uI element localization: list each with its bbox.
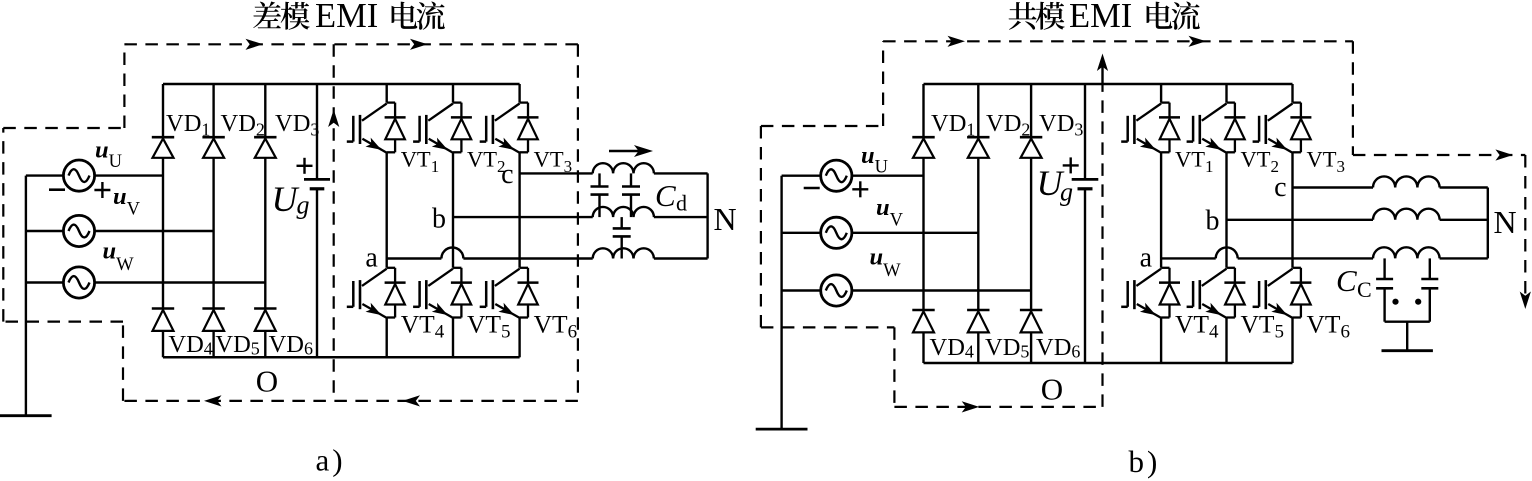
wire phase c rail (right) — [1293, 186, 1374, 188]
wire rectifier leg 2 middle (right) — [977, 158, 979, 310]
wire source uW to rectifier (right) — [852, 289, 1032, 291]
wire source uW to common (right) — [782, 289, 821, 291]
svg-text:b: b — [432, 204, 446, 235]
arrow right on top dashed 2 (right) — [1189, 36, 1207, 47]
wire rectifier leg 3 middle (right) — [1030, 158, 1032, 310]
AC source uW (left) — [63, 267, 94, 298]
wire phase c to star point (right) — [1440, 186, 1488, 188]
wire source uW to rectifier (left) — [94, 281, 265, 283]
wire inverter leg c bottom (left) — [518, 318, 520, 358]
ground of CC — [1382, 349, 1433, 352]
svg-text:uV: uV — [876, 194, 904, 231]
transistor VT3 with freewheel diode — [480, 103, 539, 153]
svg-text:VD1: VD1 — [166, 110, 210, 140]
wire rectifier leg 1 middle (left) — [162, 158, 164, 309]
inductor phase b winding (right) — [1373, 209, 1440, 220]
svg-text:VT4: VT4 — [401, 309, 445, 342]
diode VD6 — [254, 309, 276, 331]
capacitor Cd 2 — [622, 173, 640, 217]
wire phase b to star point — [654, 216, 708, 218]
arrow up through DC bus (right) — [1097, 54, 1108, 85]
minus sign at source uU (left) — [49, 188, 65, 191]
svg-text:uW: uW — [870, 244, 902, 282]
wire DC-link lower (left) — [316, 189, 318, 357]
plus sign at source uU (left) — [94, 189, 110, 191]
arrow left on bottom dashed 2 — [403, 395, 421, 406]
diode VD3 — [254, 137, 276, 158]
wire inverter leg a bottom (left) — [386, 318, 388, 358]
wire rectifier leg 1 lower (right) — [922, 332, 924, 363]
diode VD3 (right) — [1020, 137, 1042, 158]
wire phase b rail (left) — [453, 216, 593, 218]
title: 差模 EMI 电流 — [253, 0, 445, 35]
diode VD1 — [152, 137, 174, 158]
negative DC bus (left) — [163, 356, 520, 359]
svg-text:O: O — [1041, 372, 1063, 407]
svg-text:a): a) — [316, 443, 346, 478]
wire inverter leg a middle (left) — [386, 152, 388, 267]
svg-text:c: c — [501, 159, 513, 190]
wire source uV to common (left) — [26, 230, 64, 232]
svg-text:VD5: VD5 — [985, 334, 1029, 362]
transistor VT1 with freewheel diode — [347, 103, 406, 153]
AC source uU (right) — [821, 160, 852, 191]
wire rectifier leg 3 lower (right) — [1030, 332, 1032, 363]
capacitor CC 2 — [1421, 258, 1438, 321]
svg-text:d: d — [676, 191, 687, 216]
minus sign at source uU (right) — [804, 187, 820, 190]
svg-text:VT1: VT1 — [401, 147, 440, 177]
svg-text:VT6: VT6 — [1307, 309, 1351, 342]
wire phase a to star point (right) — [1440, 257, 1488, 259]
wire CC common bar — [1385, 321, 1430, 323]
wire rectifier leg 2 middle (left) — [212, 158, 214, 309]
svg-text:C: C — [1336, 263, 1357, 298]
positive DC bus (right) — [924, 83, 1293, 86]
wire rectifier leg 2 upper (right) — [977, 84, 979, 137]
plus sign of Ug (left) — [297, 165, 313, 167]
transistor VT4 with freewheel diode — [347, 268, 406, 318]
transistor VT1 with freewheel diode (right) — [1121, 103, 1180, 153]
capacitor Ug (right) — [1072, 179, 1099, 188]
svg-text:uU: uU — [95, 137, 122, 173]
wire source uU to common (right) — [782, 174, 821, 176]
svg-text:g: g — [297, 191, 310, 220]
capacitor Ug (left) — [304, 179, 330, 188]
wire inverter leg c middle (right) — [1291, 152, 1293, 267]
diode VD2 — [202, 137, 224, 158]
inductor phase b winding (left) — [593, 207, 654, 217]
svg-text:uW: uW — [103, 238, 135, 276]
svg-text:C: C — [655, 178, 676, 213]
arrow right on top dashed 1 (right) — [948, 36, 966, 47]
diode VD4 — [152, 309, 174, 331]
inductor phase a winding (left) — [593, 248, 654, 258]
svg-text:VD2: VD2 — [986, 110, 1030, 140]
dashed CM path left/bottom segments — [761, 84, 1103, 407]
ground (left) — [0, 414, 52, 417]
diode VD4 (right) — [912, 310, 934, 332]
transistor VT3 with freewheel diode (right) — [1253, 103, 1312, 153]
wire inverter leg b top (left) — [452, 84, 454, 103]
arrow right on top dashed 2 — [410, 39, 428, 50]
arrow right toward motor (right) — [1495, 149, 1513, 160]
inductor phase c winding (left) — [593, 163, 654, 173]
wire rectifier leg 3 upper (right) — [1030, 84, 1032, 137]
svg-text:VD2: VD2 — [221, 110, 265, 140]
inductor phase c winding (right) — [1373, 176, 1440, 187]
dashed CM EMI path upper loop — [883, 41, 1525, 295]
wire source uU to rectifier (right) — [852, 174, 924, 176]
ground (right) — [756, 428, 808, 431]
wire inverter leg b bottom (right) — [1225, 318, 1227, 364]
arrow DM current into load — [609, 145, 653, 157]
svg-text:VT1: VT1 — [1175, 147, 1214, 177]
svg-text:C: C — [1357, 277, 1372, 302]
wire rectifier leg 3 lower (left) — [264, 331, 266, 357]
svg-text:VD3: VD3 — [275, 110, 319, 140]
svg-text:VT4: VT4 — [1175, 309, 1219, 342]
svg-text:EMI: EMI — [315, 0, 378, 35]
diode VD6 (right) — [1020, 310, 1042, 332]
wire inverter leg b middle (right) — [1225, 152, 1227, 267]
capacitor Cd 1 — [591, 173, 609, 217]
arrow right on top dashed 1 — [246, 39, 264, 50]
AC source uW (right) — [821, 275, 852, 306]
wire CC to ground — [1406, 322, 1408, 351]
wire phase a rail with hop over leg b (left) — [387, 248, 593, 259]
capacitor CC 1 — [1376, 258, 1393, 321]
wire inverter leg a bottom (right) — [1160, 318, 1162, 364]
svg-text:uU: uU — [861, 142, 888, 178]
svg-text:O: O — [256, 364, 278, 399]
wire source common down to ground (right) — [780, 176, 782, 429]
wire inverter leg c bottom (right) — [1291, 318, 1293, 364]
title: 共模 EMI 电流 — [1009, 0, 1200, 35]
svg-text:VT3: VT3 — [534, 147, 573, 177]
diode VD1 (right) — [912, 137, 934, 158]
arrow up on middle dashed branch — [328, 110, 339, 128]
svg-text:uV: uV — [113, 183, 141, 220]
wire phase a to star point — [654, 257, 708, 259]
transistor VT2 with freewheel diode — [413, 103, 472, 153]
wire inverter leg c top (right) — [1291, 84, 1293, 103]
wire inverter leg a top (left) — [386, 84, 388, 103]
svg-text:U: U — [272, 179, 300, 219]
wire rectifier leg 3 middle (left) — [264, 158, 266, 309]
wire inverter leg c middle (left) — [518, 152, 520, 267]
AC source uV (right) — [821, 217, 852, 248]
wire rectifier leg 1 lower (left) — [162, 331, 164, 357]
wire source uV to rectifier (right) — [852, 232, 979, 234]
wire phase a rail with hop over leg b (right) — [1161, 247, 1373, 258]
plus sign of Ug (right) — [1063, 164, 1079, 166]
wire inverter leg b middle (left) — [452, 152, 454, 267]
wire inverter leg b top (right) — [1225, 84, 1227, 103]
wire source uV to common (right) — [782, 232, 821, 234]
AC source uU (left) — [63, 160, 94, 191]
dashed DM path middle branch — [333, 44, 335, 401]
transistor VT6 with freewheel diode — [480, 268, 539, 318]
label Cd — [655, 178, 687, 216]
wire star point bar N (right) — [1487, 188, 1489, 259]
transistor VT4 with freewheel diode (right) — [1121, 268, 1180, 318]
arrow left on bottom dashed 1 — [204, 395, 222, 406]
arrow right on bottom dashed (right) — [962, 401, 980, 412]
label Ug (left) — [272, 179, 310, 220]
wire inverter leg c top (left) — [518, 84, 520, 103]
svg-text:VD4: VD4 — [168, 331, 212, 359]
inductor phase a winding (right) — [1373, 247, 1440, 258]
arrow down to ground path (right) — [1520, 292, 1531, 310]
transistor VT5 with freewheel diode — [413, 268, 472, 318]
wire rectifier leg 2 upper (left) — [212, 84, 214, 137]
svg-text:N: N — [1494, 204, 1517, 240]
wire source uU to common (left) — [26, 174, 64, 176]
wire DC-link lower (right) — [1084, 189, 1086, 363]
svg-text:VD1: VD1 — [931, 110, 975, 140]
wire inverter leg b bottom (left) — [452, 318, 454, 358]
wire rectifier leg 2 lower (right) — [977, 332, 979, 363]
junction dot 2 — [1415, 299, 1421, 305]
label CC — [1336, 263, 1372, 302]
svg-text:VD6: VD6 — [1036, 334, 1080, 362]
wire DC-link upper (left) — [316, 84, 318, 179]
wire phase b rail (right) — [1227, 219, 1374, 221]
wire phase c rail (left) — [520, 172, 593, 174]
diode VD5 (right) — [967, 310, 989, 332]
svg-text:VT5: VT5 — [467, 309, 511, 342]
wire inverter leg a middle (right) — [1160, 152, 1162, 267]
wire source uV to rectifier (left) — [94, 230, 213, 232]
transistor VT6 with freewheel diode (right) — [1253, 268, 1312, 318]
wire source uU to rectifier (left) — [94, 174, 163, 176]
junction dot 1 — [1392, 299, 1398, 305]
label Ug (right) — [1037, 163, 1074, 206]
wire phase c to star point — [654, 172, 708, 174]
wire rectifier leg 1 middle (right) — [922, 158, 924, 310]
negative DC bus (right) — [924, 362, 1293, 365]
svg-text:VT3: VT3 — [1307, 147, 1346, 177]
svg-text:VD5: VD5 — [215, 331, 259, 359]
wire phase b to star point (right) — [1440, 219, 1488, 221]
transistor VT2 with freewheel diode (right) — [1187, 103, 1246, 153]
svg-text:VT2: VT2 — [467, 147, 506, 177]
positive DC bus (left) — [163, 83, 520, 86]
svg-text:VD4: VD4 — [930, 334, 974, 362]
wire DC-link upper (right) — [1084, 84, 1086, 179]
transistor VT5 with freewheel diode (right) — [1187, 268, 1246, 318]
AC source uV (left) — [63, 215, 94, 246]
plus sign at source uU (right) — [852, 188, 868, 190]
wire source common down to ground (left) — [25, 176, 27, 416]
svg-text:c: c — [1274, 172, 1286, 203]
wire rectifier leg 2 lower (left) — [212, 331, 214, 357]
capacitor Cd 3 — [613, 217, 631, 258]
svg-text:b: b — [1206, 206, 1220, 237]
svg-text:g: g — [1060, 177, 1073, 206]
wire inverter leg a top (right) — [1160, 84, 1162, 103]
dashed DM EMI current path loop — [3, 44, 578, 401]
svg-text:VD3: VD3 — [1039, 110, 1083, 140]
wire star point bar N (left) — [706, 173, 708, 258]
svg-text:N: N — [714, 201, 737, 237]
svg-text:a: a — [365, 243, 378, 274]
svg-text:b): b) — [1129, 444, 1161, 479]
wire rectifier leg 1 upper (right) — [922, 84, 924, 137]
wire rectifier leg 3 upper (left) — [264, 84, 266, 137]
wire source uW to common (left) — [26, 281, 64, 283]
svg-text:VT6: VT6 — [534, 309, 578, 342]
svg-text:EMI: EMI — [1069, 0, 1132, 35]
svg-text:VT5: VT5 — [1241, 309, 1285, 342]
svg-text:VD6: VD6 — [269, 331, 313, 359]
svg-text:a: a — [1140, 243, 1153, 274]
diode VD2 (right) — [967, 137, 989, 158]
diode VD5 — [202, 309, 224, 331]
wire rectifier leg 1 upper (left) — [162, 84, 164, 137]
